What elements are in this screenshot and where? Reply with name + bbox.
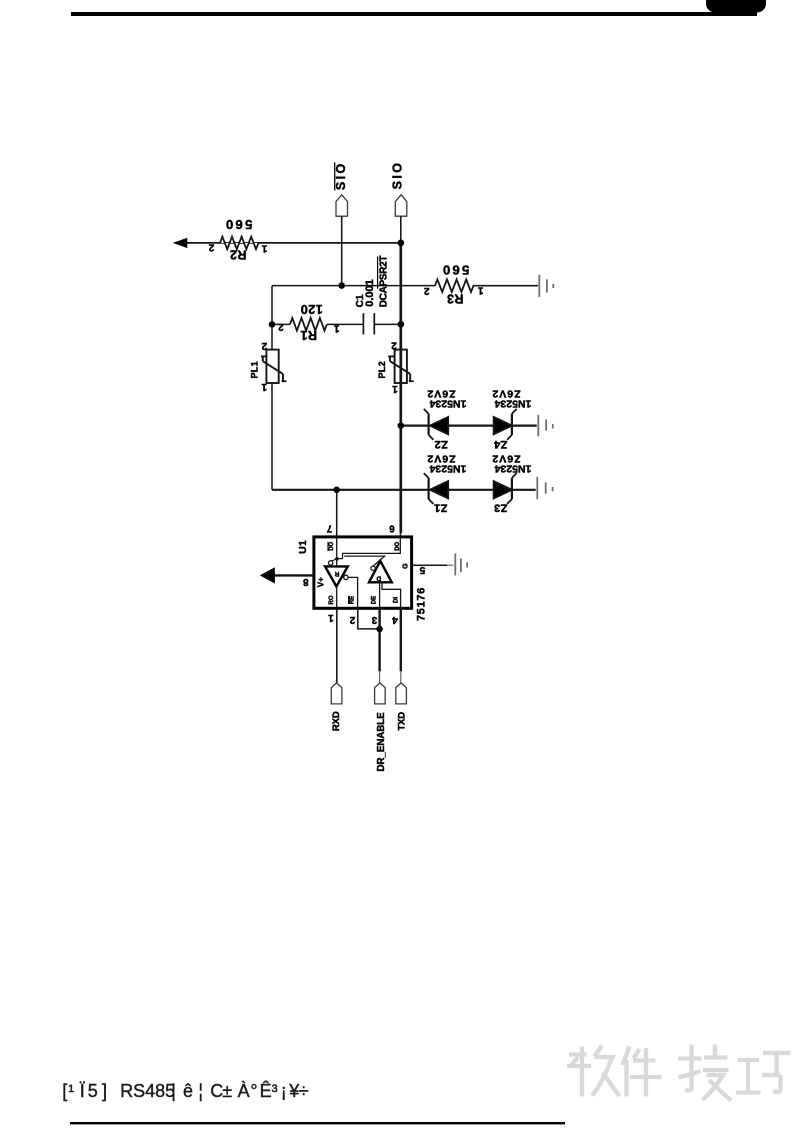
wire pin8 <box>275 574 314 576</box>
svg-text:Z3: Z3 <box>494 502 508 514</box>
arrow left (pin8) <box>260 567 275 583</box>
svg-text:DO: DO <box>329 541 335 550</box>
svg-text:8: 8 <box>303 576 309 587</box>
svg-text:PL2: PL2 <box>377 361 387 378</box>
bubble receiver-in <box>329 561 333 565</box>
svg-text:D: D <box>376 574 381 581</box>
wire pin2 <box>358 608 380 629</box>
wire PL2 bus inside <box>399 350 402 383</box>
fuse PL1 <box>261 350 286 383</box>
zener Z3 <box>494 473 517 504</box>
wire SIO-R lead <box>400 216 402 243</box>
IC internal: pin7 drop <box>336 538 338 567</box>
wire SIO-L lead <box>341 216 343 285</box>
wire R3 to ground <box>473 285 538 287</box>
header corner tab <box>706 0 766 13</box>
svg-text:560: 560 <box>224 217 253 232</box>
wire R1 left stub <box>272 323 290 325</box>
svg-text:7: 7 <box>326 523 332 534</box>
arrow left (R2) <box>173 238 188 248</box>
wire bus stub into IC <box>400 532 402 538</box>
svg-text:Z4: Z4 <box>493 438 507 450</box>
svg-text:R1: R1 <box>300 328 317 342</box>
svg-text:6: 6 <box>389 523 395 534</box>
svg-text:1: 1 <box>328 612 334 623</box>
svg-text:1: 1 <box>392 383 398 394</box>
svg-text:G: G <box>402 563 409 569</box>
ground G2 <box>538 415 553 436</box>
svg-text:2: 2 <box>391 339 397 350</box>
svg-text:Z1: Z1 <box>434 502 448 514</box>
ground G4 <box>455 553 467 575</box>
svg-text:4: 4 <box>392 614 398 625</box>
svg-text:1N5234: 1N5234 <box>429 398 466 410</box>
bubble driver <box>371 566 375 570</box>
svg-text:1: 1 <box>261 381 267 392</box>
port SIO-L <box>336 195 348 216</box>
wire pin3 DE <box>378 608 380 671</box>
overline SIO-L <box>334 163 336 191</box>
IC internal: bubble link <box>332 559 337 561</box>
resistor R3 <box>435 279 473 292</box>
svg-text:2: 2 <box>261 340 267 351</box>
wire C1 to bus <box>375 323 401 325</box>
IC internal: DE path <box>379 583 381 608</box>
IC internal: RO path <box>336 587 338 609</box>
svg-text:RE: RE <box>349 596 355 604</box>
resistor R2 <box>220 237 259 250</box>
junction dots <box>269 240 404 633</box>
svg-text:2: 2 <box>278 321 284 332</box>
capacitor C1 <box>363 313 374 334</box>
svg-text:TXD: TXD <box>397 712 408 731</box>
wire pin7 riser <box>336 490 338 538</box>
svg-text:RXD: RXD <box>331 711 342 731</box>
svg-text:R2: R2 <box>230 248 247 262</box>
svg-text:3: 3 <box>371 614 377 625</box>
overline RE <box>348 596 350 604</box>
zener Z1 <box>424 473 448 504</box>
svg-text:DE: DE <box>371 596 377 604</box>
svg-text:2: 2 <box>349 614 355 625</box>
IC internal: dot <box>335 557 339 561</box>
svg-text:2: 2 <box>208 241 214 252</box>
header rule <box>71 12 757 16</box>
svg-text:Z2: Z2 <box>434 438 448 450</box>
wire zener row2 <box>272 489 536 491</box>
caption [圖5] RS485 ... (big5 mojibake) <box>62 1081 67 1102</box>
svg-text:1N5234: 1N5234 <box>494 463 531 475</box>
overline DO-L <box>327 542 329 551</box>
resistor R1 <box>290 318 327 331</box>
port DR_ENABLE <box>375 683 386 704</box>
svg-text:1N5234: 1N5234 <box>494 398 531 410</box>
svg-text:1: 1 <box>477 284 483 295</box>
svg-text:DI: DI <box>393 597 399 603</box>
svg-text:75176: 75176 <box>416 587 428 621</box>
ground G3 <box>537 477 552 500</box>
svg-text:RO: RO <box>329 595 335 604</box>
watermark 软件技巧 <box>567 1045 791 1101</box>
zener Z2 <box>424 409 448 440</box>
svg-text:1: 1 <box>261 243 267 254</box>
svg-text:1N5234: 1N5234 <box>429 463 466 475</box>
svg-text:SIO: SIO <box>391 161 405 190</box>
svg-text:SIO: SIO <box>334 161 348 190</box>
wire main bus <box>399 243 402 533</box>
svg-text:1: 1 <box>333 323 339 334</box>
ground G1 <box>539 275 553 297</box>
IC internal: second rail <box>344 556 384 566</box>
svg-text:PL1: PL1 <box>249 361 259 378</box>
svg-text:U1: U1 <box>297 540 309 554</box>
wire zener row1 <box>401 425 537 427</box>
svg-text:R: R <box>334 570 339 577</box>
svg-text:V+: V+ <box>317 577 326 587</box>
op-amp driver triangle <box>369 561 392 582</box>
wire left branch vertical x=272 <box>271 286 273 490</box>
wire R1 to C1 <box>327 323 363 325</box>
wire pin4 TXD <box>400 608 402 671</box>
wire pin5 to ground <box>412 564 447 566</box>
IC internal: DI path <box>382 583 401 608</box>
IC internal: RE path <box>348 577 358 608</box>
zener Z4 <box>494 409 517 440</box>
footer rule <box>70 1122 565 1124</box>
port SIO-R <box>395 195 407 216</box>
svg-text:DO: DO <box>395 541 401 550</box>
svg-text:0.001: 0.001 <box>364 279 376 307</box>
overline DCAPSR2T <box>377 257 379 289</box>
svg-text:2: 2 <box>423 285 429 296</box>
svg-text:560: 560 <box>441 263 470 278</box>
bubble receiver-out <box>344 575 348 579</box>
IC internal: pin6 drop <box>337 538 400 559</box>
svg-text:DCAPSR2T: DCAPSR2T <box>378 256 389 308</box>
wire pin1 to RXD <box>336 608 338 683</box>
op-amp receiver triangle <box>325 566 348 586</box>
port TXD <box>396 683 407 704</box>
wire net row y=285.6 left <box>272 285 435 287</box>
svg-text:R3: R3 <box>447 291 464 305</box>
svg-text:120: 120 <box>300 302 323 316</box>
port RXD <box>331 683 342 704</box>
fuse PL2 <box>388 350 413 383</box>
wire R2 output <box>186 242 402 244</box>
svg-text:5: 5 <box>419 564 425 575</box>
svg-text:DR_ENABLE: DR_ENABLE <box>376 712 387 772</box>
IC U1 box <box>314 537 412 608</box>
